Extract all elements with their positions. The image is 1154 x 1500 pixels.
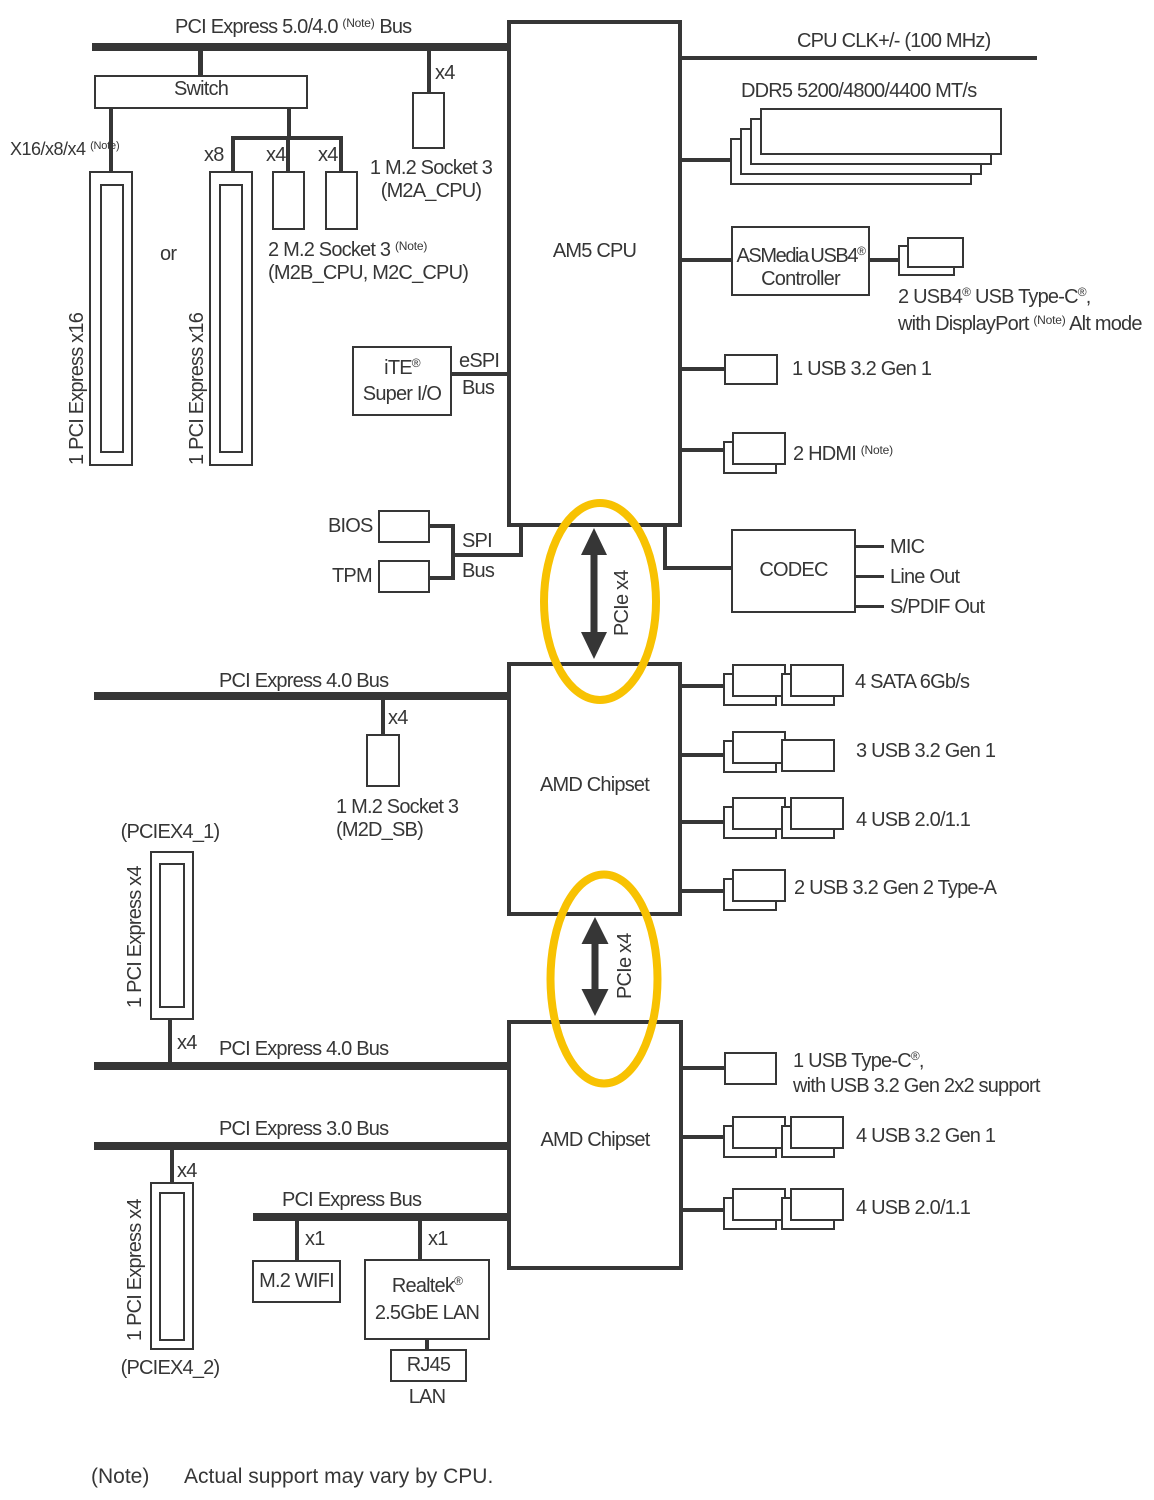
connector: SATA back-right xyxy=(781,673,835,706)
slot PCIEX4_2 outer xyxy=(150,1182,194,1350)
wire: x4 drop to M2C xyxy=(339,140,343,171)
box: iTE Super I/O xyxy=(352,346,452,416)
label: eSPI Bus xyxy=(459,350,499,373)
wire: bus to M2D xyxy=(381,700,385,734)
wire: chipset2 to 4 USB 3.2 Gen 1 xyxy=(683,1135,724,1139)
wire: chipset1 to SATA xyxy=(682,684,723,688)
label: x4 (PCIEX4_1) xyxy=(177,1032,197,1055)
connector: USB31 back-right xyxy=(781,1125,835,1158)
connector: USB2 front-right xyxy=(790,797,844,830)
chipset box 2: AMD Chipset xyxy=(507,1020,683,1270)
wire: x8 drop to slot 2 xyxy=(231,136,235,171)
connector: HDMI front xyxy=(732,432,786,465)
wire: PCIe bus (thick, bottom) xyxy=(253,1213,511,1221)
slot PCIEX16_1 outer xyxy=(89,171,133,466)
wire: CPU to ASMedia USB4 controller xyxy=(682,258,731,262)
wire: SPI trunk to CPU xyxy=(451,553,523,557)
connector: USB31 front-right xyxy=(790,1116,844,1149)
wire: bus to PCIEX4_2 xyxy=(170,1150,174,1182)
footnote xyxy=(91,1465,149,1488)
label: MIC xyxy=(890,536,924,559)
label: 3 USB 3.2 Gen 1 xyxy=(856,740,995,763)
slot PCIEX4_1 outer xyxy=(150,851,194,1020)
connector: USB front-left xyxy=(732,731,786,764)
label: X16/x8/x4 (Note) xyxy=(10,135,119,161)
label: x4 (M2A) xyxy=(435,62,455,85)
slot PCIEX16_2 inner xyxy=(219,184,243,453)
box: M2C_CPU M.2 socket xyxy=(325,171,358,230)
connector: USB20 front-right xyxy=(790,1188,844,1221)
label: 1 M.2 Socket 3 (M2A_CPU) xyxy=(351,157,511,203)
wire: Realtek to RJ45 xyxy=(425,1340,429,1349)
wire: switch to PCIe x16 slot 1 xyxy=(109,109,113,171)
label: LAN xyxy=(387,1386,467,1409)
highlight ellipse 1 + PCIe x4 arrow (CPU to chipset) xyxy=(536,495,666,709)
wire: CPU to DIMMs xyxy=(682,158,730,162)
slot PCIEX16_1 inner xyxy=(100,184,124,453)
slot PCIEX4_1 inner xyxy=(159,863,185,1008)
wire: CODEC to Line Out xyxy=(856,575,884,578)
connector: USB2 back-left xyxy=(723,806,777,839)
bus label: PCI Express 5.0/4.0 Bus xyxy=(175,12,411,39)
bus label: PCI Express 3.0 Bus xyxy=(219,1118,388,1141)
DIMM stack (4 modules) xyxy=(730,138,972,185)
box: M2A_CPU M.2 socket xyxy=(412,92,445,149)
connector: USB4 port back xyxy=(898,245,955,276)
label: 1 USB Type-C with USB 3.2 Gen 2x2 support xyxy=(793,1044,1040,1099)
connector: SATA back-left xyxy=(723,673,777,706)
connector: USB20 front-left xyxy=(732,1188,786,1221)
wire: SPI up into CPU xyxy=(519,527,523,557)
label: (PCIEX4_1) xyxy=(100,821,240,844)
box: M2D_SB M.2 socket xyxy=(366,734,400,787)
connector: USB2 front-left xyxy=(732,797,786,830)
box: RJ45 xyxy=(390,1349,467,1382)
connector: USB Gen2 back xyxy=(723,878,777,911)
bus label: PCI Express 4.0 Bus (lower) xyxy=(219,1038,388,1061)
label: 2 M.2 Socket 3 (M2B_CPU, M2C_CPU) xyxy=(268,235,468,285)
wire: PCIe 5.0/4.0 bus (thick) xyxy=(92,43,510,51)
wire: PCIe 4.0 bus (thick, to chipset 2) xyxy=(94,1062,511,1070)
box: BIOS xyxy=(378,510,430,543)
wire: bus to Switch xyxy=(198,51,203,75)
wire: PCIe 4.0 bus (thick, to chipset 1) xyxy=(94,692,511,700)
connector: USB right xyxy=(781,739,835,772)
wire: CPU to USB 3.2 Gen 1 xyxy=(682,367,724,371)
label: CPU CLK+/- (100 MHz) xyxy=(797,30,991,53)
connector: USB Type-C xyxy=(724,1052,777,1085)
wire: chipset1 to 3 USB 3.2 Gen 1 xyxy=(682,753,723,757)
label: x4 (PCIEX4_2) xyxy=(177,1160,197,1183)
wire: CODEC to MIC xyxy=(856,545,884,548)
wire: switch down to branch xyxy=(287,109,291,140)
highlight ellipse 2 + PCIe x4 arrow (chipset to chipset) xyxy=(542,866,668,1092)
connector: SATA front-right xyxy=(790,664,844,697)
label: DDR5 5200/4800/4400 MT/s xyxy=(741,80,976,103)
wire: CPU down to CODEC xyxy=(663,527,667,570)
CPU box: AM5 CPU xyxy=(507,20,682,527)
box: M.2 WIFI xyxy=(252,1260,341,1303)
label: PCIe x4 (upper link) xyxy=(611,570,634,636)
bus label: PCI Express 4.0 Bus (upper) xyxy=(219,670,388,693)
wire: CPU CLK xyxy=(682,56,1037,60)
label: (PCIEX4_2) xyxy=(100,1357,240,1380)
label: x4 (M2B) xyxy=(266,144,286,167)
label: x1 (WIFI) xyxy=(305,1228,325,1251)
slot PCIEX16_2 outer xyxy=(209,171,253,466)
label: 4 USB 3.2 Gen 1 xyxy=(856,1125,995,1148)
connector: HDMI back xyxy=(723,441,777,474)
slot PCIEX4_2 inner xyxy=(159,1192,185,1341)
chipset box 1: AMD Chipset xyxy=(507,662,682,916)
wire: CPU to HDMI xyxy=(682,448,727,452)
label: 4 USB 2.0/1.1 xyxy=(856,1197,970,1220)
label: TPM xyxy=(332,565,372,588)
label: 1 PCI Express x16 (slot 2) xyxy=(186,313,209,465)
wire: SPI vertical joint xyxy=(451,524,455,580)
wire: CODEC to S/PDIF Out xyxy=(856,605,884,608)
connector: USB back-left xyxy=(723,740,777,773)
label: 2 USB4 USB Type-C with DisplayPort Alt mode xyxy=(898,281,1142,336)
label: or xyxy=(160,243,176,266)
connector: USB Gen2 front xyxy=(732,869,786,902)
label: 1 PCI Express x4 (PCIEX4_1) xyxy=(124,866,147,1008)
connector: USB4 port front xyxy=(907,237,964,268)
box: ASMedia USB4 Controller xyxy=(731,226,870,296)
connector: USB 3.2 Gen 1 xyxy=(724,354,778,385)
connector: USB31 front-left xyxy=(732,1116,786,1149)
wire: bus to Realtek LAN xyxy=(418,1221,422,1259)
wire: PCIEX4_1 to bus xyxy=(168,1020,172,1062)
label: SPI Bus xyxy=(462,530,492,553)
switch box xyxy=(94,75,308,109)
wire: TPM to SPI trunk xyxy=(430,576,455,580)
wire: x4 drop to M2B xyxy=(286,140,290,171)
label: x1 (LAN) xyxy=(428,1228,448,1251)
label: 4 SATA 6Gb/s xyxy=(855,671,969,694)
label: 1 M.2 Socket 3 (M2D_SB) xyxy=(336,796,458,842)
box: CODEC xyxy=(731,529,856,613)
connector: USB20 back-right xyxy=(781,1197,835,1230)
label: 1 USB 3.2 Gen 1 xyxy=(792,358,931,381)
label: 1 PCI Express x16 (slot 1) xyxy=(66,313,89,465)
label: PCIe x4 (lower link) xyxy=(614,933,637,999)
wire: bus to M.2 WIFI xyxy=(295,1221,299,1260)
wire: chipset1 to 2 USB 3.2 Gen 2 xyxy=(682,889,723,893)
label: BIOS xyxy=(328,515,373,538)
connector: USB2 back-right xyxy=(781,806,835,839)
label: x4 (M2C) xyxy=(318,144,338,167)
box: M2B_CPU M.2 socket xyxy=(272,171,305,230)
box: TPM xyxy=(378,560,430,593)
label: 4 USB 2.0/1.1 xyxy=(856,809,970,832)
label: 1 PCI Express x4 (PCIEX4_2) xyxy=(124,1199,147,1341)
bus label: PCI Express Bus xyxy=(282,1189,421,1212)
wire: iTE to CPU (eSPI) xyxy=(452,372,507,376)
wire: BIOS to SPI trunk xyxy=(430,524,455,528)
label: x8 xyxy=(204,144,224,167)
label: 2 HDMI xyxy=(793,439,893,466)
label: x4 (M2D) xyxy=(388,707,408,730)
connector: SATA front-left xyxy=(732,664,786,697)
wire: PCIe 3.0 bus (thick) xyxy=(94,1142,511,1150)
label: S/PDIF Out xyxy=(890,596,984,619)
wire: controller to USB4 ports xyxy=(870,258,898,262)
wire: chipset2 to 4 USB 2.0 xyxy=(683,1208,724,1212)
connector: USB20 back-left xyxy=(723,1197,777,1230)
connector: USB31 back-left xyxy=(723,1125,777,1158)
wire: chipset1 to 4 USB 2.0 xyxy=(682,820,723,824)
label: Line Out xyxy=(890,566,959,589)
wire: chipset2 to USB Type-C xyxy=(683,1066,724,1070)
box: Realtek 2.5GbE LAN xyxy=(364,1259,490,1340)
wire: bus to M2A xyxy=(427,51,431,92)
label: 2 USB 3.2 Gen 2 Type-A xyxy=(794,877,996,900)
wire: branch horizontal xyxy=(231,136,343,140)
